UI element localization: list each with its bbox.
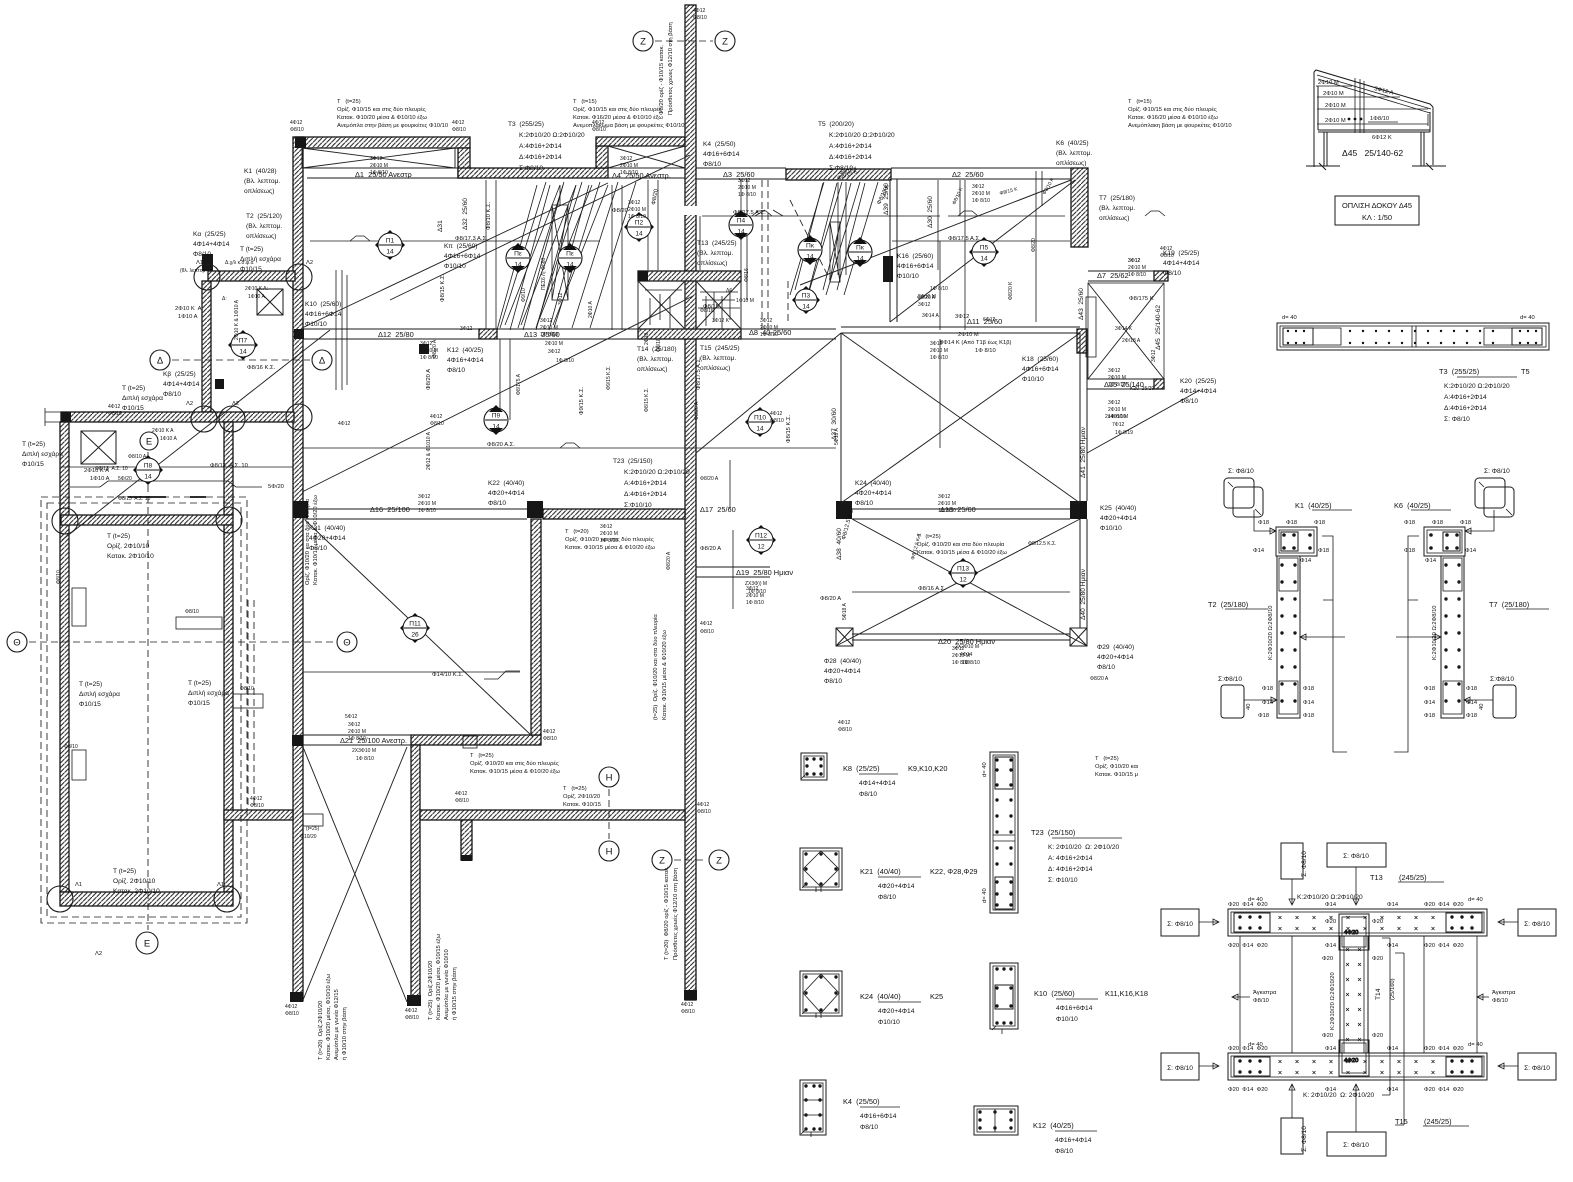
- svg-text:Σ: Φ8/10: Σ: Φ8/10: [1343, 1142, 1369, 1149]
- svg-text:Φ14: Φ14: [1387, 902, 1399, 908]
- svg-text:T13 (245/25): T13 (245/25): [697, 240, 737, 247]
- svg-text:Φ8/10: Φ8/10: [108, 411, 122, 417]
- svg-text:Κατακ. Φ10/20 μέσα, Φ10/15 έξω: Κατακ. Φ10/20 μέσα, Φ10/15 έξω: [435, 933, 442, 1020]
- svg-text:Π12: Π12: [755, 533, 767, 540]
- beam Δ12-Δ13: [303, 329, 638, 339]
- detail roof beam Δ45 outline: [1314, 70, 1433, 167]
- note roofL2: [1323, 91, 1344, 97]
- svg-text:Κ25: Κ25: [930, 992, 943, 1001]
- stair newel X left: [552, 205, 568, 300]
- svg-text:Φ8/17.5 Α.Σ.: Φ8/17.5 Α.Σ.: [948, 236, 981, 242]
- svg-text:T (t=25): T (t=25): [240, 246, 263, 253]
- svg-text:2Φ10 Κ Α: 2Φ10 Κ Α: [152, 428, 174, 434]
- svg-text:Φ14: Φ14: [1325, 902, 1337, 908]
- svg-text:Φ8/10: Φ8/10: [193, 251, 211, 258]
- svg-text:Κ9,Κ10,Κ20: Κ9,Κ10,Κ20: [908, 764, 947, 773]
- dashed foundation rect outer: [41, 497, 247, 923]
- svg-text:2Φ10 Κ Α: 2Φ10 Κ Α: [84, 468, 109, 474]
- note rotG3: [318, 973, 348, 1060]
- svg-text:d= 40: d= 40: [1468, 897, 1483, 903]
- svg-text:1Φ8/10: 1Φ8/10: [1370, 116, 1389, 122]
- reinf line y240 right: [892, 240, 1070, 242]
- label block T7p: [1099, 195, 1135, 222]
- svg-text:Φ20 Φ14 Φ20: Φ20 Φ14 Φ20: [1228, 943, 1268, 949]
- svg-text:Φ20 Φ14 Φ20: Φ20 Φ14 Φ20: [1424, 902, 1464, 908]
- junction circle Λ9: [216, 507, 242, 533]
- svg-text:3Φ12: 3Φ12: [540, 318, 553, 324]
- svg-text:Φ14: Φ14: [1465, 548, 1477, 554]
- svg-text:4Φ20+4Φ14: 4Φ20+4Φ14: [855, 490, 892, 497]
- svg-text:4Φ12: 4Φ12: [430, 414, 443, 420]
- vert line x965: [964, 180, 966, 330]
- svg-text:T (t=20) Ορίζ.2Φ10/20: T (t=20) Ορίζ.2Φ10/20: [318, 1001, 324, 1060]
- svg-text:E: E: [146, 437, 152, 448]
- note ag2: [1492, 990, 1516, 1004]
- svg-text:1Φ10 Α: 1Φ10 Α: [90, 476, 110, 482]
- svg-text:d= 40: d= 40: [1468, 1042, 1483, 1048]
- svg-text:οπλίσεως): οπλίσεως): [637, 365, 667, 373]
- svg-text:4Φ16+6Φ14: 4Φ16+6Φ14: [703, 151, 740, 158]
- svg-text:1Φ 8/10: 1Φ 8/10: [746, 600, 764, 606]
- svg-text:Κ4 (25/50): Κ4 (25/50): [703, 141, 736, 148]
- stack s9: [936, 480, 956, 514]
- dim arrows K1: [1300, 634, 1345, 640]
- note rotW6top: [659, 22, 674, 115]
- wall P horizontal: [411, 735, 541, 745]
- arrow K6: [1465, 510, 1494, 534]
- svg-text:Ορίζ. Φ10/15 και στις δύο πλευ: Ορίζ. Φ10/15 και στις δύο πλευρές: [573, 106, 662, 113]
- svg-text:Κατακ. Φ10/15 μέσα & Φ10/20 έξ: Κατακ. Φ10/15 μέσα & Φ10/20 έξω: [470, 768, 560, 775]
- column block Xroom-br: [1070, 501, 1087, 519]
- svg-text:Φ10/15: Φ10/15: [122, 405, 144, 412]
- slab step symbol: [484, 671, 520, 679]
- svg-text:Πρόσθετες χρωές Φ12/10 στη βάσ: Πρόσθετες χρωές Φ12/10 στη βάση: [672, 868, 679, 960]
- svg-text:Δ:: Δ:: [222, 296, 227, 302]
- svg-text:Κ11,Κ16,Κ18: Κ11,Κ16,Κ18: [1105, 989, 1148, 998]
- svg-text:Φ8/20: Φ8/20: [612, 208, 628, 214]
- svg-text:Πκ: Πκ: [806, 243, 815, 250]
- svg-text:Κ:2Φ10/20 Ω:2Φ10/20: Κ:2Φ10/20 Ω:2Φ10/20: [829, 132, 895, 139]
- svg-text:Λ1: Λ1: [75, 882, 82, 888]
- svg-text:6Φ12 Κ: 6Φ12 Κ: [1372, 135, 1392, 141]
- dashed axis Z top: [655, 40, 713, 42]
- svg-text:Φ8/10: Φ8/10: [1180, 398, 1198, 405]
- stack s5: [538, 304, 558, 338]
- W6 door gap: [684, 206, 697, 215]
- wall Q vertical: [531, 519, 541, 735]
- svg-text:Π9: Π9: [492, 413, 501, 420]
- svg-text:Φ14: Φ14: [1303, 700, 1315, 706]
- svg-text:2Φ10 Μ: 2Φ10 Μ: [1325, 118, 1346, 124]
- svg-text:Φ10/20: Φ10/20: [300, 834, 317, 840]
- ticks left of wall J: [45, 408, 61, 426]
- reinf line y241 left: [310, 240, 600, 242]
- svg-text:Δ41 25/80 Ημιαν: Δ41 25/80 Ημιαν: [1080, 426, 1087, 478]
- svg-text:Φ10/10: Φ10/10: [1056, 1016, 1078, 1023]
- svg-text:T (t=20) Φ8/20 ορίζ - Φ10/15: T (t=20) Φ8/20 ορίζ - Φ10/15 κατακ.: [664, 866, 670, 960]
- svg-text:Φ14: Φ14: [1325, 943, 1337, 949]
- svg-text:K4 (25/50): K4 (25/50): [843, 1097, 880, 1106]
- step marks: [752, 211, 978, 216]
- section K10: [990, 963, 1018, 1034]
- svg-text:T (t=25): T (t=25): [79, 681, 102, 688]
- wall A top-left: [295, 137, 470, 148]
- svg-text:Φ18: Φ18: [1314, 520, 1325, 526]
- svg-text:(Βλ. λεπτομ.: (Βλ. λεπτομ.: [244, 178, 280, 185]
- wall W link: [224, 810, 293, 820]
- svg-text:4Φ12: 4Φ12: [455, 791, 468, 797]
- note rotT: [428, 933, 458, 1020]
- svg-text:ή Φ10/10 στην βάση: ή Φ10/10 στην βάση: [341, 1007, 348, 1060]
- svg-text:Κ24 (40/40): Κ24 (40/40): [855, 480, 891, 487]
- svg-text:Πρόσθετος χρωες Φ12/10 στη βάσ: Πρόσθετος χρωες Φ12/10 στη βάση: [667, 22, 674, 115]
- stack s11: [598, 510, 618, 544]
- svg-text:3Φ12: 3Φ12: [760, 318, 773, 324]
- svg-text:4Φ20: 4Φ20: [1344, 930, 1358, 936]
- dashed axis Θ: [29, 641, 335, 643]
- svg-text:Σ: Φ8/10: Σ: Φ8/10: [1301, 851, 1308, 877]
- reinf line y216: [702, 215, 1065, 217]
- junction circle Λ6: [47, 886, 73, 912]
- svg-text:2Φ10 Μ: 2Φ10 Μ: [1325, 103, 1346, 109]
- svg-text:Π2: Π2: [635, 220, 644, 227]
- label K10: [1034, 989, 1148, 1023]
- svg-text:Ορίζ. Φ10/20 κα στα δύο πλευρί: Ορίζ. Φ10/20 κα στα δύο πλευρία: [305, 498, 311, 585]
- wall C top: [596, 137, 685, 146]
- svg-text:Φ8/20 Α: Φ8/20 Α: [666, 551, 672, 570]
- beam Δ16: [303, 509, 527, 519]
- stair fan right extra: [790, 182, 878, 295]
- svg-text:Φ8/175 Κ: Φ8/175 Κ: [1129, 296, 1154, 302]
- wall stub stub2: [72, 750, 86, 780]
- note bot3: [1095, 756, 1139, 778]
- svg-text:4Φ14+4Φ14: 4Φ14+4Φ14: [1180, 388, 1217, 395]
- svg-text:Φ18: Φ18: [1432, 520, 1443, 526]
- svg-text:Σ: Φ8/10: Σ: Φ8/10: [1301, 1126, 1308, 1152]
- svg-text:Φ8/10: Φ8/10: [455, 798, 469, 804]
- svg-text:2Φ10 Α: 2Φ10 Α: [588, 301, 594, 318]
- svg-text:Φ8/10: Φ8/10: [250, 803, 264, 809]
- svg-text:T2 (25/120): T2 (25/120): [246, 213, 282, 220]
- svg-text:Φ14/10 Κ.Σ.: Φ14/10 Κ.Σ.: [432, 672, 464, 678]
- svg-text:Φ9/15 Κ.Σ.: Φ9/15 Κ.Σ.: [606, 366, 612, 390]
- svg-text:2Φ10 Μ: 2Φ10 Μ: [545, 341, 563, 347]
- svg-text:Κατακ. 2Φ10/10: Κατακ. 2Φ10/10: [107, 553, 154, 560]
- svg-text:Διπλή εσχάρα: Διπλή εσχάρα: [188, 689, 229, 697]
- svg-text:T (t=25): T (t=25): [1095, 756, 1119, 762]
- svg-text:4Φ20+4Φ14: 4Φ20+4Φ14: [878, 883, 915, 890]
- svg-text:d= 40: d= 40: [1520, 315, 1535, 321]
- svg-text:Φ8/10: Φ8/10: [697, 809, 711, 815]
- svg-text:Δ45 25/140-62: Δ45 25/140-62: [1342, 148, 1403, 158]
- svg-text:Ανεμόπλα με γωνία Φ12/15: Ανεμόπλα με γωνία Φ12/15: [333, 989, 340, 1060]
- svg-text:Φ8/10: Φ8/10: [405, 1015, 419, 1021]
- svg-text:Φ8/10: Φ8/10: [447, 367, 465, 374]
- svg-text:Φ8/10: Φ8/10: [1492, 998, 1508, 1004]
- svg-text:d= 40: d= 40: [1248, 897, 1263, 903]
- svg-text:Δ.χ/λ κ.σ.φ.α: Δ.χ/λ κ.σ.φ.α: [225, 260, 254, 266]
- label K24: [860, 992, 943, 1026]
- svg-text:ΟΠΛΙΣΗ ΔΟΚΟΥ Δ45: ΟΠΛΙΣΗ ΔΟΚΟΥ Δ45: [1342, 201, 1412, 210]
- svg-text:2Φ10 Μ: 2Φ10 Μ: [1318, 80, 1339, 86]
- svg-text:Σ: Φ8/10: Σ: Φ8/10: [1444, 416, 1470, 423]
- dashed pair x762: [762, 180, 768, 330]
- svg-text:Κατακ. Φ10/13 μέσα & Φ10/20 έξ: Κατακ. Φ10/13 μέσα & Φ10/20 έξω: [312, 495, 319, 585]
- svg-text:Φ8/17.5 Α.Σ.: Φ8/17.5 Α.Σ.: [696, 357, 702, 390]
- marker Πκ1: [798, 235, 822, 265]
- svg-text:Φ28 (40/40): Φ28 (40/40): [824, 658, 861, 665]
- svg-text:2Φ10 Μ: 2Φ10 Μ: [1108, 407, 1126, 413]
- svg-text:οπλίσεως): οπλίσεως): [1099, 214, 1129, 222]
- svg-text:Φ8/10: Φ8/10: [452, 127, 466, 133]
- svg-text:Φ8/13 Α.Σ. 10: Φ8/13 Α.Σ. 10: [210, 463, 248, 469]
- svg-text:1Φ 8/10: 1Φ 8/10: [930, 355, 948, 361]
- svg-text:2Φ12 & Φ1010 Α: 2Φ12 & Φ1010 Α: [426, 431, 432, 470]
- svg-text:Φ8/10: Φ8/10: [488, 500, 506, 507]
- label block Tt25L: [22, 441, 63, 468]
- svg-text:οπλίσεως): οπλίσεως): [700, 364, 730, 372]
- svg-text:Φ20 Φ14 Φ20: Φ20 Φ14 Φ20: [1424, 1087, 1464, 1093]
- stack s10: [416, 480, 436, 514]
- wall B mid-top: [458, 168, 608, 178]
- sigma top center: [1327, 843, 1386, 905]
- svg-text:Φ18: Φ18: [1466, 686, 1477, 692]
- svg-text:T (t=20): T (t=20): [565, 529, 589, 535]
- svg-text:Φ8/10: Φ8/10: [855, 500, 873, 507]
- diagonal D5a X-room: [841, 333, 1080, 503]
- svg-text:Φ8/20 Α: Φ8/20 Α: [1090, 676, 1109, 682]
- svg-text:Z: Z: [722, 37, 728, 48]
- axis Θ1: [7, 632, 27, 652]
- wall stub stub1: [72, 588, 86, 626]
- svg-text:3Φ12: 3Φ12: [628, 200, 641, 206]
- svg-text:Κπ (25/60): Κπ (25/60): [444, 243, 478, 250]
- junction circle Λ5: [286, 404, 312, 430]
- svg-text:4Φ12: 4Φ12: [452, 120, 465, 126]
- svg-text:5Φ/20: 5Φ/20: [268, 484, 284, 490]
- svg-text:T3 (255/25): T3 (255/25): [508, 121, 544, 128]
- label block Tb3: [113, 868, 160, 895]
- svg-text:3Φ12: 3Φ12: [1128, 258, 1141, 264]
- svg-text:Κ12 (40/25): Κ12 (40/25): [447, 347, 483, 354]
- wall S long horizontal: [420, 810, 685, 820]
- svg-text:οπλίσεως): οπλίσεως): [246, 232, 276, 240]
- wall C step-vert2: [596, 146, 608, 168]
- axis Δ1c: [150, 350, 170, 370]
- leader verticals Δ12: [336, 270, 347, 390]
- svg-text:Φ10/10: Φ10/10: [444, 263, 466, 270]
- svg-text:4Φ12: 4Φ12: [543, 729, 556, 735]
- svg-text:1Φ 8/10: 1Φ 8/10: [628, 214, 646, 220]
- beam Δ2: [891, 168, 1071, 179]
- arrow K6b: [1464, 697, 1493, 703]
- svg-text:3Φ12: 3Φ12: [938, 494, 951, 500]
- vert lines x648: [648, 180, 658, 270]
- column block T-cap: [407, 995, 421, 1006]
- label K12: [1033, 1121, 1097, 1155]
- svg-text:4Φ16+6Φ14: 4Φ16+6Φ14: [1022, 366, 1059, 373]
- wall H horizontal: [208, 271, 295, 281]
- small bars detail: [128, 496, 206, 498]
- axis Z4: [709, 850, 729, 870]
- svg-text:Άγκιστρα: Άγκιστρα: [1253, 990, 1277, 996]
- stack s4: [1126, 244, 1146, 278]
- svg-text:Φ8/20 Α: Φ8/20 Α: [820, 596, 841, 602]
- svg-text:Φ8/17.5 Α.Σ.: Φ8/17.5 Α.Σ.: [733, 210, 766, 216]
- svg-text:4Φ12: 4Φ12: [108, 404, 121, 410]
- svg-text:d= 40: d= 40: [982, 762, 988, 777]
- svg-text:Φ9/15 Κ.Σ.: Φ9/15 Κ.Σ.: [579, 386, 585, 415]
- marker Πκ2: [848, 237, 872, 267]
- marker Π7: [228, 330, 258, 360]
- diagonal D4b strip X: [303, 747, 407, 1000]
- svg-text:3Φ12: 3Φ12: [746, 586, 759, 592]
- svg-text:1Φ 8/10: 1Φ 8/10: [975, 348, 996, 354]
- svg-text:Κ10 (25/60): Κ10 (25/60): [305, 301, 341, 308]
- stack s8: [1106, 354, 1126, 388]
- svg-text:Κ18 (25/60): Κ18 (25/60): [1022, 356, 1058, 363]
- svg-text:Άγκιστρα: Άγκιστρα: [1492, 990, 1516, 996]
- svg-text:Φ18: Φ18: [1318, 548, 1329, 554]
- svg-text:4Φ16+6Φ14: 4Φ16+6Φ14: [444, 253, 481, 260]
- svg-text:2Χ3Φ10 Μ: 2Χ3Φ10 Μ: [352, 748, 376, 754]
- svg-text:Φ14: Φ14: [1325, 1046, 1337, 1052]
- beam Δ8: [741, 329, 836, 339]
- svg-text:Φ14: Φ14: [1387, 1046, 1399, 1052]
- detail T13 top beam: [1228, 909, 1487, 936]
- svg-text:Φ18: Φ18: [1303, 686, 1314, 692]
- svg-text:3Φ12: 3Φ12: [738, 178, 751, 184]
- svg-text:Φ8/20 Α: Φ8/20 Α: [694, 401, 700, 420]
- column block smallcol-420: [419, 344, 429, 354]
- axis H2: [599, 841, 619, 861]
- svg-text:Κ:2Φ10/20 Ω:2Φ8/10: Κ:2Φ10/20 Ω:2Φ8/10: [1432, 605, 1438, 660]
- label block K6p: [1056, 140, 1092, 167]
- svg-text:Φ18: Φ18: [1404, 520, 1415, 526]
- svg-text:d= 40: d= 40: [982, 888, 988, 903]
- wall D7 block: [1154, 271, 1168, 281]
- svg-text:3Φ12: 3Φ12: [348, 722, 361, 728]
- column block G-mid: [293, 501, 308, 518]
- svg-text:14: 14: [856, 256, 864, 263]
- svg-text:Σ: Φ10/10: Σ: Φ10/10: [1048, 877, 1078, 884]
- label block Tt25b: [122, 385, 163, 412]
- svg-text:Φ8/16: Φ8/16: [700, 308, 714, 314]
- label K4: [843, 1097, 900, 1131]
- wall M horizontal: [61, 515, 233, 525]
- svg-text:Φ8/10: Φ8/10: [860, 1124, 878, 1131]
- svg-text:Δ31: Δ31: [437, 220, 444, 232]
- svg-text:Φ10/15: Φ10/15: [79, 701, 101, 708]
- slab line y485 room: [70, 481, 262, 487]
- svg-text:K12 (40/25): K12 (40/25): [1033, 1121, 1074, 1130]
- sigma top left vert: [1281, 843, 1308, 905]
- svg-text:Σ: Φ8/10: Σ: Φ8/10: [1167, 1065, 1193, 1072]
- stack s14: [950, 632, 970, 666]
- stack s19: [626, 186, 646, 220]
- svg-text:Φ8/17.3 Α.Σ.: Φ8/17.3 Α.Σ.: [455, 236, 488, 242]
- detail beam section T3-T5: [1277, 323, 1549, 350]
- stirrup box K6bot: [1493, 685, 1516, 718]
- svg-text:Π8: Π8: [144, 463, 153, 470]
- svg-text:Κατακ. Φ10/15 μέσα & Φ10/20 έξ: Κατακ. Φ10/15 μέσα & Φ10/20 έξω: [917, 549, 1007, 556]
- stack s2: [618, 142, 638, 176]
- svg-text:Δ7 25/62: Δ7 25/62: [1097, 271, 1129, 280]
- marker Π1: [375, 230, 405, 260]
- sigma box br: [1518, 1053, 1556, 1080]
- junction circle Λ3: [191, 406, 217, 432]
- svg-text:T14: T14: [1375, 988, 1382, 1000]
- label block Kπ: [444, 243, 481, 270]
- svg-text:Κατακ. Φ10/20 μέσα & Φ10/10 έξ: Κατακ. Φ10/20 μέσα & Φ10/10 έξω: [337, 114, 427, 121]
- svg-text:Π4: Π4: [737, 218, 746, 225]
- svg-text:4Φ14+4Φ14: 4Φ14+4Φ14: [859, 780, 896, 787]
- svg-text:1Φ10 Μ: 1Φ10 Μ: [736, 298, 754, 304]
- svg-text:Φ8/10: Φ8/10: [878, 894, 896, 901]
- marker Π4: [729, 210, 753, 240]
- svg-text:Κ22 (40/40): Κ22 (40/40): [488, 480, 524, 487]
- svg-text:Φ8/20 Α: Φ8/20 Α: [700, 546, 721, 552]
- junction texture: [698, 290, 740, 330]
- junction circle Λ1: [194, 264, 220, 290]
- svg-text:Φ20 Φ14 Φ20: Φ20 Φ14 Φ20: [1424, 1046, 1464, 1052]
- svg-text:Φ8/10: Φ8/10: [703, 161, 721, 168]
- svg-text:Π1: Π1: [386, 238, 395, 245]
- reinf line y592: [852, 591, 1070, 593]
- svg-text:Φ18: Φ18: [1466, 713, 1477, 719]
- stack s1: [368, 142, 388, 176]
- sigma bottom center: [1327, 1084, 1386, 1156]
- stack s6: [418, 327, 438, 361]
- svg-text:(t=25) Ορίζ. Φ10/20 και στα δ: (t=25) Ορίζ. Φ10/20 και στα δύο πλευρία: [653, 614, 659, 720]
- svg-text:H: H: [606, 773, 613, 784]
- beam Δ41 right edge X-room: [1080, 353, 1087, 501]
- section K24: [800, 971, 842, 1018]
- dashed axis E centerline: [147, 452, 149, 930]
- svg-text:K1 (40/25): K1 (40/25): [1295, 501, 1332, 510]
- svg-text:40: 40: [1246, 704, 1252, 710]
- svg-text:1Φ 8/19: 1Φ 8/19: [1115, 430, 1133, 436]
- svg-text:Κ:2Φ10/20 Ω:2Φ10/20: Κ:2Φ10/20 Ω:2Φ10/20: [1444, 383, 1510, 390]
- svg-text:4Φ20+4Φ14: 4Φ20+4Φ14: [488, 490, 525, 497]
- axis Z1: [633, 31, 653, 51]
- svg-text:Κ16 (25/60): Κ16 (25/60): [897, 253, 933, 260]
- svg-text:Ορίζ. Φ10/20 και στα δύο πλευρ: Ορίζ. Φ10/20 και στα δύο πλευρία: [917, 542, 1005, 548]
- svg-text:Φ8/16 Κ.Σ.: Φ8/16 Κ.Σ.: [247, 365, 276, 371]
- junction circle Λ4: [219, 406, 245, 432]
- svg-text:Φ8/10: Φ8/10: [681, 1009, 695, 1015]
- svg-text:4Φ12: 4Φ12: [405, 1008, 418, 1014]
- svg-text:12: 12: [959, 577, 967, 584]
- svg-text:2Φ10 Κ Α:: 2Φ10 Κ Α:: [175, 306, 204, 312]
- marker Π11: [400, 613, 430, 643]
- diagonal D2 lower-left: [62, 330, 330, 540]
- axis E1: [140, 432, 158, 450]
- label block K25p: [1100, 505, 1137, 532]
- svg-text:Φ8/15 Κ.Σ.: Φ8/15 Κ.Σ.: [786, 414, 792, 443]
- X-box below E right: [696, 281, 741, 329]
- svg-text:T (t=25): T (t=25): [22, 441, 45, 448]
- K1 section: [1276, 527, 1317, 556]
- svg-text:Δ19 25/80 Ημιαν: Δ19 25/80 Ημιαν: [736, 568, 793, 577]
- note mid1: [565, 529, 655, 551]
- svg-text:Φ8/10: Φ8/10: [185, 609, 199, 615]
- note roofL3: [1325, 103, 1346, 109]
- svg-text:Δ40 25/80 Ημιαν: Δ40 25/80 Ημιαν: [1080, 568, 1087, 620]
- svg-text:Φ8/10: Φ8/10: [543, 736, 557, 742]
- svg-text:Α:4Φ16+2Φ14: Α:4Φ16+2Φ14: [624, 480, 667, 487]
- svg-text:1Φ 8/10: 1Φ 8/10: [760, 332, 778, 338]
